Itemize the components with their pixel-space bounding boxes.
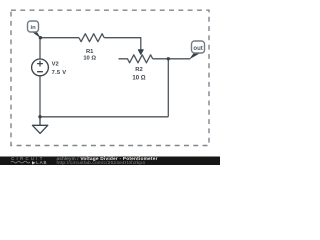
- port in badge: [28, 21, 39, 32]
- potentiometer R2: [119, 55, 153, 63]
- port out badge: [192, 41, 205, 53]
- svg-text:V2: V2: [52, 62, 59, 68]
- svg-text:10 Ω: 10 Ω: [83, 56, 96, 62]
- port in connector tail: [32, 32, 41, 38]
- svg-text:in: in: [31, 25, 37, 31]
- wire R1 right to R2 wiper: [104, 38, 141, 51]
- footer attribution text: [57, 156, 158, 166]
- resistor R1: [79, 34, 104, 42]
- wire bottom rail to ground node: [40, 116, 168, 118]
- port out connector tail: [190, 53, 200, 59]
- svg-text:R2: R2: [135, 67, 142, 73]
- wire node out down to bottom rail: [167, 59, 169, 117]
- wire V2 branch vertical: [39, 38, 41, 117]
- svg-text:out: out: [193, 46, 202, 52]
- wiper arrow of potentiometer R2: [138, 50, 143, 55]
- footer CircuitLab logo: [11, 156, 47, 165]
- junction node at R2 right / out: [167, 57, 170, 60]
- wire node in to R1 left: [40, 37, 79, 39]
- junction node at ground: [38, 115, 41, 118]
- svg-text:10 Ω: 10 Ω: [132, 75, 145, 81]
- wire R2 right to node out: [153, 58, 191, 60]
- svg-text:7.5 V: 7.5 V: [52, 70, 67, 76]
- voltage source V2: [32, 59, 49, 76]
- ground: [32, 117, 47, 134]
- junction node at in / V2 top: [39, 36, 42, 39]
- svg-text:R1: R1: [86, 49, 94, 55]
- svg-text:▶LAB: ▶LAB: [32, 160, 47, 165]
- footer bar: [0, 157, 220, 166]
- svg-text:http://circuitlab.com/c/2624e4: http://circuitlab.com/c/2624e4rt4h2kp4: [57, 160, 146, 165]
